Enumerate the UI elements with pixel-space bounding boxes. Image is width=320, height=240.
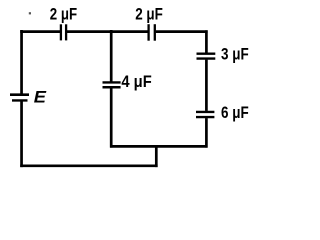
- wire: left vertical, lower segment: [20, 102, 23, 168]
- speck (scan artifact): [29, 12, 31, 14]
- wire: top horizontal, middle segment: [67, 30, 148, 33]
- wire: right vertical, upper segment: [205, 30, 208, 52]
- svg-text:2 μF: 2 μF: [50, 4, 77, 23]
- svg-text:E: E: [34, 88, 47, 107]
- wire: right vertical, lower segment: [205, 118, 208, 148]
- svg-text:6 μF: 6 μF: [221, 103, 249, 122]
- svg-text:3 μF: 3 μF: [221, 44, 249, 63]
- wire: right vertical, middle segment: [205, 60, 208, 111]
- wire: step vertical joining outer and inner bottom wires: [155, 145, 158, 167]
- battery E (EMF source, two horizontal plates): [10, 95, 29, 101]
- svg-text:2 μF: 2 μF: [135, 5, 163, 24]
- wire: middle vertical, lower segment: [110, 88, 113, 148]
- wire: bottom inner horizontal: [110, 145, 208, 148]
- wire: top horizontal, left segment: [20, 30, 60, 33]
- capacitor C3 4uF (middle, horizontal plates): [103, 82, 121, 87]
- wire: middle vertical, upper segment: [110, 30, 113, 82]
- wire: left vertical, upper segment: [20, 30, 23, 94]
- capacitor C1 2uF (top-left, vertical plates): [61, 24, 66, 40]
- wire: bottom outer horizontal: [20, 164, 157, 167]
- capacitor C5 6uF (right lower, horizontal plates): [196, 112, 214, 117]
- capacitor C2 2uF (top-right, vertical plates): [149, 24, 155, 41]
- svg-text:4 μF: 4 μF: [121, 72, 151, 91]
- wire: top horizontal, right segment: [156, 30, 208, 33]
- capacitor C4 3uF (right upper, horizontal plates): [197, 54, 216, 59]
